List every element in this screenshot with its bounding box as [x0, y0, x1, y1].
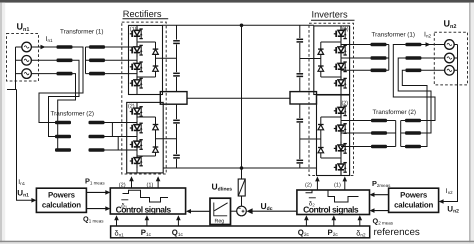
T2 primary winding a: [55, 121, 71, 125]
regulator Reg: [210, 198, 231, 224]
wire: T1 secondary to bridge 1 phase c: [105, 73, 137, 75]
source G2a: [445, 40, 455, 50]
IGBT Q5: [130, 105, 143, 119]
svg-text:Control signals: Control signals: [116, 205, 172, 215]
frame right strip: [470, 3, 474, 244]
wire: bridge 2 inv phase b: [341, 132, 371, 134]
T1 secondary winding b: [89, 59, 105, 63]
wire: T1r line side phase c to grid: [421, 69, 445, 71]
IGBT Q2: [130, 43, 143, 57]
svg-text:Transformer (1): Transformer (1): [60, 29, 104, 36]
svg-text:Rectifiers: Rectifiers: [123, 9, 162, 19]
wire: T1r star bus: [387, 45, 389, 71]
svg-text:Transformer (2): Transformer (2): [51, 111, 95, 118]
frame bottom line: [0, 241, 474, 243]
wire: bottom DC bus: [163, 167, 316, 169]
svg-text:Inverters: Inverters: [312, 9, 349, 19]
diode D2: [153, 66, 159, 71]
T2 secondary winding b: [89, 135, 105, 139]
wire: right upper mid tap: [300, 58, 321, 60]
wire: T2 secondary to bridge 2 phase a: [105, 122, 138, 124]
capacitor C4: [173, 154, 180, 159]
summing junction S1: [237, 206, 247, 216]
wire: source bus 2: [457, 45, 459, 71]
wire: regulator output to control signals 1: [186, 209, 210, 214]
capacitor C3: [173, 119, 180, 124]
capacitor C2: [173, 72, 180, 77]
T2r bridge winding b: [371, 131, 387, 135]
wire: series link phase b T1r-T2r: [398, 58, 431, 133]
T1r bridge winding c: [371, 69, 387, 73]
converter bridge (1) rectifier: [129, 25, 163, 94]
IGBT Q9: [334, 27, 347, 41]
IGBT Q16: [334, 160, 347, 174]
diode D4: [153, 147, 159, 152]
wire: T2 secondary to bridge 2 phase c: [105, 149, 138, 151]
T2r line winding a: [405, 119, 421, 123]
T2r line winding b: [405, 131, 421, 135]
references feed ticks control 2: [306, 218, 359, 227]
svg-text:Transformer (2): Transformer (2): [373, 109, 417, 116]
firing signal arrow rectifier (1): [147, 176, 161, 189]
IGBT Q3: [130, 60, 143, 74]
wire: measurement drop Un2/In2: [442, 70, 458, 201]
capacitor C8: [296, 159, 303, 164]
wire: bridge 1 inv phase b: [341, 57, 371, 59]
wire: series link phase c T1r-T2r: [402, 70, 427, 146]
arrow In1 current: [41, 45, 46, 50]
underline Inverters: [311, 19, 355, 21]
T1 primary winding b: [57, 59, 73, 63]
Inverters dashed box: [309, 23, 354, 175]
wire: left lower mid tap: [156, 138, 177, 140]
wire: bus stub to box edge: [7, 89, 17, 91]
wire: resistor to summer: [241, 196, 243, 206]
T1r line winding b: [405, 56, 421, 60]
Rectifiers dashed box: [122, 22, 166, 174]
wire: summer to regulator: [231, 210, 237, 212]
diode D5: [318, 49, 324, 54]
IGBT Q14: [334, 122, 347, 136]
wire: phase b to transformer 1: [31, 59, 57, 61]
T1r bridge winding a: [371, 43, 387, 47]
Udlines transducer R1: [238, 179, 245, 196]
wire: T1 secondary to bridge 1 phase a: [105, 46, 137, 48]
wire: T1r line side phase a to grid: [421, 44, 445, 46]
firing signal arrow inverter (2): [305, 176, 320, 190]
wire: source stubs left: [16, 47, 23, 74]
wire: T1 secondary star bus: [85, 47, 87, 74]
T2r bridge winding a: [371, 119, 387, 123]
diode D3: [153, 125, 159, 130]
smoothing reactor box right: [290, 92, 317, 104]
T1 primary winding c: [57, 72, 73, 76]
svg-text:(1): (1): [334, 182, 341, 189]
wire: series link phase c T1-T2: [55, 74, 76, 150]
AC network 1 dashed box: [7, 34, 39, 82]
IGBT Q10: [334, 43, 347, 57]
references bar: [111, 226, 370, 238]
wire: T1r line side phase b to grid: [421, 57, 445, 59]
arrow into powers calc 2: [439, 199, 444, 204]
wire: series link phase b T1-T2: [49, 60, 80, 136]
wire: bridge 1 inv phase c: [341, 69, 371, 71]
wire: bridge 2 inv phase a: [341, 120, 371, 122]
wire: series link phase a T1-T2: [39, 47, 83, 123]
svg-text:(2): (2): [305, 182, 312, 189]
frame top band: [0, 0, 474, 3]
svg-text:calculation: calculation: [42, 201, 81, 210]
frame left strip: [0, 3, 2, 244]
wire: phase a to transformer 1: [31, 46, 57, 48]
firing signal arrow rectifier (2): [119, 176, 134, 189]
converter bridge (2) inverter: [317, 95, 350, 176]
wire: P2 meas arrow: [370, 192, 389, 197]
wire: top DC bus: [163, 24, 314, 26]
svg-text:Powers: Powers: [48, 191, 76, 200]
Control signals box 2: [297, 190, 370, 215]
IGBT Q15: [334, 141, 347, 155]
IGBT Q11: [334, 60, 347, 74]
wire: T2r bridge star bus: [387, 121, 396, 147]
AC network 2 dashed box: [434, 32, 467, 85]
wire: P1 meas arrow: [86, 190, 110, 195]
svg-text:references: references: [374, 227, 420, 238]
arrow into powers calc 1: [31, 198, 36, 203]
T2r line winding c: [405, 145, 421, 149]
T2r bridge winding c: [371, 145, 387, 149]
Powers calculation box 1: [36, 188, 86, 212]
references feed ticks control 1: [117, 218, 179, 227]
T2 primary winding b: [55, 135, 71, 139]
T2 secondary winding a: [89, 121, 105, 125]
IGBT Q7: [130, 138, 143, 152]
IGBT Q1: [130, 27, 143, 41]
converter bridge (2) rectifier: [127, 102, 164, 172]
capacitor C1: [173, 40, 180, 45]
diode D7: [318, 125, 324, 130]
T2 primary winding c: [55, 148, 71, 152]
wire: left DC rail: [176, 25, 178, 168]
frame right line: [469, 3, 470, 244]
T1 secondary winding a: [89, 45, 105, 49]
capacitor C5: [296, 38, 303, 43]
wire: phase c to transformer 1: [31, 73, 57, 75]
source G2c: [445, 66, 455, 76]
node: top bus tap: [240, 24, 244, 28]
svg-text:Powers: Powers: [400, 191, 428, 200]
T1r bridge winding b: [371, 56, 387, 60]
IGBT Q4: [130, 76, 143, 90]
wire: measurement drop Un1/In1: [17, 90, 34, 201]
source G2b: [445, 53, 455, 63]
smoothing reactor box left: [160, 92, 187, 105]
Udc reference arrow: [247, 208, 297, 214]
wire: Q2 meas arrow: [370, 208, 389, 213]
wire: mid DC line: [187, 97, 290, 99]
wire: source 2 stubs right: [454, 45, 458, 71]
source G1c: [22, 69, 32, 79]
diode D1: [153, 49, 159, 54]
wire: T2 delta link bc: [117, 137, 119, 151]
Powers calculation box 2: [389, 188, 439, 212]
wire: Q1 meas arrow: [86, 206, 110, 211]
capacitor C6: [296, 73, 303, 78]
wire: T1 secondary stubs: [86, 47, 90, 74]
IGBT Q13: [334, 104, 347, 118]
IGBT Q6: [130, 121, 143, 135]
source G1a: [22, 42, 32, 52]
svg-text:calculation: calculation: [394, 201, 433, 210]
IGBT Q12: [334, 76, 347, 90]
T1r line winding c: [405, 69, 421, 73]
svg-text:Control signals: Control signals: [303, 205, 359, 215]
wire: center measurement line: [241, 25, 243, 179]
frame bottom strip: [0, 242, 474, 244]
node: bottom bus tap: [240, 166, 244, 170]
wire: bridge 1 inv phase a: [341, 44, 371, 46]
capacitor C7: [296, 118, 303, 123]
wire: T2r line bus: [401, 121, 405, 147]
T1 secondary winding c: [89, 72, 105, 76]
wire: T2 secondary to bridge 2 phase b: [105, 136, 138, 138]
wire: right DC rail: [299, 25, 301, 168]
underline Rectifiers: [123, 18, 169, 20]
wire: left upper mid tap: [156, 57, 177, 59]
wire: right lower mid tap: [300, 138, 321, 140]
wire: series link phase a T1r-T2r: [393, 45, 435, 121]
arrow In2 current: [426, 42, 431, 47]
converter bridge (1) inverter: [314, 26, 350, 95]
IGBT Q8: [130, 154, 143, 168]
Control signals box 1: [110, 188, 185, 215]
wire: T2 delta link ab: [111, 123, 113, 137]
T1 primary winding a: [57, 45, 73, 49]
wire: T1 secondary to bridge 1 phase b: [105, 59, 137, 61]
T1r line winding a: [405, 43, 421, 47]
source G1b: [22, 56, 32, 66]
firing signal arrow inverter (1): [334, 176, 347, 190]
wire: bridge 2 inv phase c: [341, 146, 371, 148]
wire: source bus 1: [15, 47, 17, 90]
svg-text:Transformer (1): Transformer (1): [372, 31, 416, 38]
diode D6: [318, 66, 324, 71]
svg-text:Reg: Reg: [215, 219, 225, 225]
T2 secondary winding c: [89, 148, 105, 152]
diode D8: [318, 148, 324, 153]
